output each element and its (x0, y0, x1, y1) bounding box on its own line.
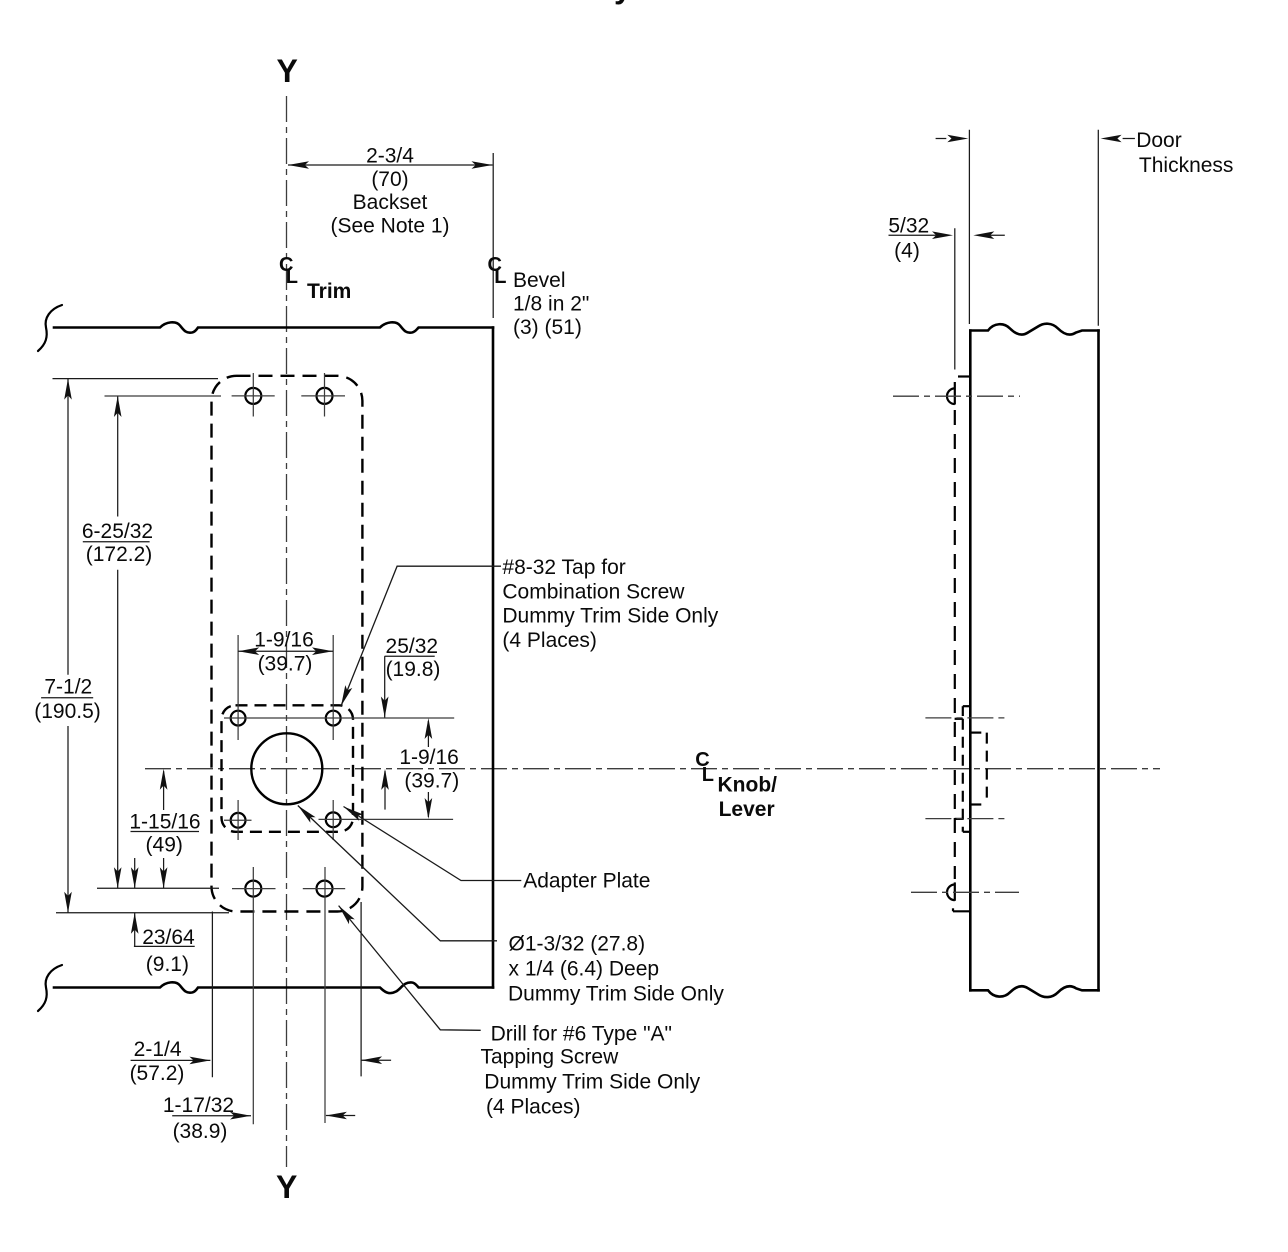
svg-text:Combination Screw: Combination Screw (502, 580, 685, 603)
recess hidden outline (side) (986, 733, 988, 805)
extension line bottom holes (left) (97, 887, 219, 889)
svg-text:1-9/16: 1-9/16 (254, 629, 314, 652)
dummy trim plate outline (hidden) (212, 376, 363, 912)
dimension 2-1/4 line+arrow (131, 1059, 211, 1061)
knob spindle hole Ø1-3/32 (251, 733, 322, 804)
svg-text:Dummy Trim Side Only: Dummy Trim Side Only (508, 983, 724, 1006)
trim mounting hole 2 (#6 tapping screw) (317, 388, 333, 404)
centerline adapter bottom holes (side) (925, 818, 1008, 820)
svg-text:1/8 in 2": 1/8 in 2" (513, 293, 589, 316)
extension line door face (side) (968, 130, 970, 324)
extension line plate top (53, 378, 219, 380)
door bottom edge break mark S-curve (38, 965, 62, 1011)
svg-text:(190.5): (190.5) (34, 700, 101, 723)
crosshair trim hole 3 (232, 888, 276, 890)
adapter plate hole 2 (#8-32 tap) (326, 711, 341, 726)
extension line hole 3 (bottom) (252, 867, 254, 1124)
crosshair trim hole 2 (301, 395, 345, 397)
svg-text:Door: Door (1136, 129, 1182, 152)
svg-text:Ø1-3/32 (27.8): Ø1-3/32 (27.8) (509, 933, 646, 956)
svg-text:L: L (494, 266, 506, 288)
svg-text:23/64: 23/64 (142, 926, 195, 949)
dimension 5/32 line+arrow (889, 234, 937, 236)
svg-text:(49): (49) (146, 834, 183, 857)
extension line door back (side) (1097, 130, 1099, 326)
svg-text:7-1/2: 7-1/2 (44, 676, 92, 699)
svg-text:(39.7): (39.7) (404, 770, 459, 793)
svg-text:Y: Y (277, 53, 298, 89)
svg-text:Bevel: Bevel (513, 269, 566, 292)
svg-text:y: y (614, 0, 632, 5)
extension line door edge (top) (492, 153, 494, 318)
svg-text:2-1/4: 2-1/4 (134, 1038, 182, 1061)
trim mounting hole 1 (#6 tapping screw) (245, 388, 261, 404)
svg-text:Lever: Lever (719, 798, 775, 821)
svg-text:2-3/4: 2-3/4 (366, 145, 414, 168)
svg-text:(38.9): (38.9) (173, 1120, 228, 1143)
svg-text:Backset: Backset (353, 191, 428, 214)
dimension 25/32 leader+arrow (385, 655, 435, 657)
trim mounting hole 3 (#6 tapping screw) (245, 881, 261, 897)
svg-text:(70): (70) (371, 168, 408, 191)
leader #8-32 tap (341, 566, 501, 706)
door top edge break mark S-curve (38, 305, 62, 351)
svg-text:(19.8): (19.8) (386, 658, 441, 681)
svg-text:(4 Places): (4 Places) (502, 629, 597, 652)
svg-text:L: L (286, 266, 298, 288)
svg-text:1-17/32: 1-17/32 (163, 1094, 234, 1117)
centerline adapter top holes (side) (925, 717, 1008, 719)
adapter plate outline (hidden) (222, 705, 354, 832)
extension line trim face (side) (954, 228, 956, 369)
dimension 2-1/4 right arrow (361, 1059, 391, 1061)
dimension 2-3/4 backset line (288, 164, 493, 166)
svg-text:(4): (4) (894, 240, 920, 263)
svg-text:L: L (702, 764, 714, 786)
svg-text:6-25/32: 6-25/32 (82, 520, 153, 543)
adapter hole step bottom (side) (955, 818, 963, 820)
extension line plate bottom (left) (56, 912, 229, 914)
leader drill #6 (339, 906, 481, 1031)
trim hidden line upper chord (954, 382, 956, 405)
door face right edge (lock edge) (492, 328, 495, 988)
crosshair line through adapter top holes (224, 717, 454, 719)
dimension 6-25/32 line (117, 397, 119, 517)
trim screw hole top (side) (947, 388, 955, 404)
trim hidden line lower chord (954, 882, 956, 900)
centerline bottom screw holes (side) (911, 891, 1019, 893)
adapter plate hole 3 (#8-32 tap) (231, 813, 246, 828)
dimension 23/64 upper arrow (134, 858, 136, 888)
svg-text:x 1/4 (6.4) Deep: x 1/4 (6.4) Deep (509, 958, 660, 981)
leader adapter plate (344, 807, 522, 881)
door face line (side view) (969, 331, 972, 991)
door face top edge (left view) (54, 322, 493, 332)
svg-text:#8-32 Tap for: #8-32 Tap for (502, 556, 625, 579)
dimension 1-17/32 line+arrow (172, 1115, 251, 1117)
door thickness arrows (936, 138, 947, 140)
extension line plate right edge (bottom) (360, 902, 362, 1076)
svg-text:Adapter Plate: Adapter Plate (523, 869, 650, 892)
extension line plate left edge (bottom) (211, 912, 213, 1078)
dimension 5/32 right arrow (984, 234, 1005, 236)
svg-text:Y: Y (276, 1169, 297, 1205)
extension line top holes (105, 395, 222, 397)
svg-text:(9.1): (9.1) (146, 953, 189, 976)
leader recess (298, 806, 497, 941)
adapter top step (side) (963, 705, 971, 707)
adapter top hole verticals / 1-9/16 extension lines (237, 635, 239, 740)
svg-text:Dummy Trim Side Only: Dummy Trim Side Only (484, 1071, 700, 1094)
svg-text:Knob/: Knob/ (718, 773, 778, 796)
door bottom edge (side view) (970, 986, 1098, 997)
crosshair trim hole 4 (303, 888, 345, 890)
svg-text:Dummy Trim Side Only: Dummy Trim Side Only (502, 605, 718, 628)
trim hidden line (side) (954, 410, 956, 879)
centerline top screw holes (side) (893, 395, 1020, 397)
adapter plate hole 1 (#8-32 tap) (231, 711, 246, 726)
svg-text:(57.2): (57.2) (130, 1062, 185, 1085)
trim plate top step (side) (958, 375, 970, 377)
dimension 7-1/2 line (67, 379, 69, 675)
svg-text:(See Note 1): (See Note 1) (330, 214, 449, 237)
dimension 1-9/16 vertical arrows (427, 721, 429, 747)
adapter bottom step (side) (963, 831, 971, 833)
svg-text:1-15/16: 1-15/16 (129, 811, 200, 834)
adapter hidden line (side) (962, 719, 964, 832)
svg-text:Trim: Trim (307, 280, 351, 303)
extension line hole 4 (bottom) (324, 867, 326, 1123)
dimension 1-15/16 upper arrow (163, 771, 165, 810)
dimension 25/32 lower arrow (384, 771, 386, 810)
dimension 1-15/16 lower arrow (163, 858, 165, 888)
svg-text:(172.2): (172.2) (86, 543, 153, 566)
crosshair trim hole 1 (232, 395, 275, 397)
trim screw hole bottom (side) (947, 885, 955, 901)
svg-text:Drill for #6 Type "A": Drill for #6 Type "A" (491, 1023, 672, 1046)
door face bottom edge (left view) (54, 982, 493, 993)
vertical centerline Y-Y left view (286, 96, 288, 1167)
dimension 23/64 lower arrow (134, 913, 136, 947)
dimension 1-17/32 right arrow (326, 1115, 355, 1117)
svg-text:Thickness: Thickness (1139, 154, 1234, 177)
svg-text:5/32: 5/32 (888, 215, 929, 238)
door back line (side view) (1097, 331, 1100, 991)
svg-text:(39.7): (39.7) (258, 653, 313, 676)
svg-text:1-9/16: 1-9/16 (399, 746, 459, 769)
crosshair+extension through adapter hole 4 (319, 818, 454, 820)
svg-text:(3) (51): (3) (51) (513, 316, 582, 339)
adapter plate hole 4 (#8-32 tap) (326, 812, 341, 827)
adapter hole step top (side) (955, 718, 963, 720)
trim mounting hole 4 (#6 tapping screw) (317, 881, 333, 897)
svg-text:(4 Places): (4 Places) (486, 1096, 581, 1119)
crosshair adapter hole 3 (224, 819, 252, 821)
horizontal centerline Knob/Lever (145, 768, 1160, 770)
svg-text:Tapping Screw: Tapping Screw (481, 1046, 620, 1069)
door top edge (side view) (970, 324, 1098, 335)
svg-text:25/32: 25/32 (386, 635, 439, 658)
trim plate bottom step (side) (953, 910, 970, 912)
dimension 1-9/16 horizontal (238, 650, 333, 652)
